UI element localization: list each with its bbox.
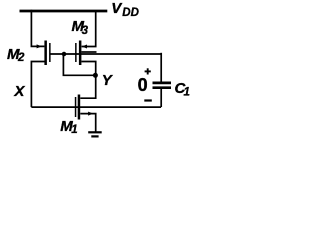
wire M2 source to VDD [31, 10, 44, 47]
svg-text:DD: DD [122, 7, 139, 19]
wire C1 bottom vertical [160, 89, 162, 107]
svg-text:X: X [13, 83, 25, 100]
wire Y branch down [63, 54, 95, 75]
wire M1 source down [80, 114, 95, 132]
transistor M3 (PMOS) [75, 41, 87, 66]
svg-text:3: 3 [82, 25, 89, 37]
ground [88, 132, 102, 136]
wire gate line Y to C1 top [50, 53, 161, 55]
wire M2 drain to node X [31, 62, 45, 108]
transistor M1 (NMOS) [75, 95, 94, 120]
node dot Y [93, 73, 98, 78]
wire M3 drain down to M1 drain [80, 62, 95, 99]
transistor M2 (PMOS) [37, 41, 51, 66]
VDD rail [20, 10, 108, 13]
svg-text:2: 2 [17, 52, 25, 64]
capacitor polarity minus [144, 99, 152, 101]
wire M3 source to VDD [82, 10, 96, 47]
svg-text:0: 0 [138, 75, 148, 95]
node dot gates junction [62, 52, 67, 57]
wire M3 drain strap to node column [81, 51, 96, 53]
svg-text:1: 1 [71, 124, 77, 136]
wire node X horizontal to C1 bottom [31, 106, 161, 108]
capacitor C1 plates [153, 83, 172, 88]
wire C1 top vertical [160, 53, 162, 82]
svg-text:Y: Y [102, 72, 114, 89]
svg-text:1: 1 [184, 87, 190, 99]
capacitor polarity plus [145, 68, 151, 74]
